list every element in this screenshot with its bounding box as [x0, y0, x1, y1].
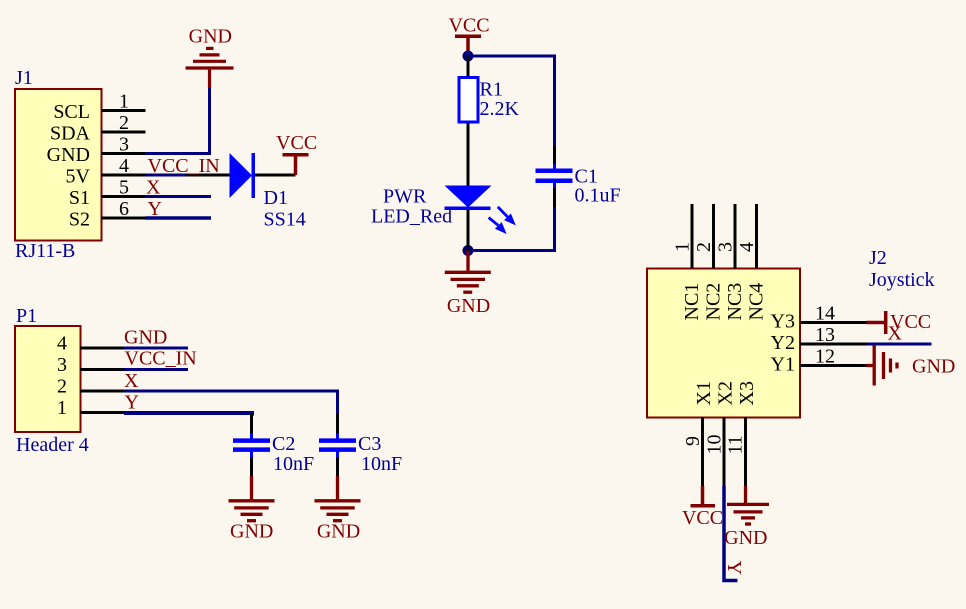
svg-text:12: 12 — [815, 346, 835, 368]
svg-text:11: 11 — [725, 435, 747, 454]
svg-text:3: 3 — [57, 354, 67, 376]
svg-text:14: 14 — [815, 303, 835, 325]
svg-text:J2: J2 — [869, 247, 887, 269]
svg-text:13: 13 — [815, 324, 835, 346]
svg-text:4: 4 — [57, 333, 67, 355]
svg-text:C2: C2 — [272, 433, 295, 455]
svg-text:NC4: NC4 — [746, 283, 768, 321]
svg-text:X: X — [888, 323, 903, 345]
svg-text:GND: GND — [317, 521, 360, 543]
svg-text:1: 1 — [57, 397, 67, 419]
svg-text:GND: GND — [124, 327, 167, 349]
svg-text:J1: J1 — [15, 67, 33, 89]
svg-text:6: 6 — [119, 198, 129, 220]
svg-text:2.2K: 2.2K — [480, 98, 520, 120]
svg-text:1: 1 — [119, 91, 129, 113]
svg-text:LED_Red: LED_Red — [371, 206, 452, 228]
svg-text:Y: Y — [723, 561, 745, 575]
svg-text:2: 2 — [693, 242, 715, 252]
svg-text:PWR: PWR — [383, 186, 427, 208]
svg-text:1: 1 — [672, 242, 694, 252]
svg-text:9: 9 — [682, 436, 704, 446]
svg-text:3: 3 — [119, 134, 129, 156]
svg-text:10nF: 10nF — [361, 453, 402, 475]
svg-text:RJ11-B: RJ11-B — [15, 240, 75, 262]
svg-text:Y3: Y3 — [771, 311, 795, 333]
svg-text:GND: GND — [724, 527, 767, 549]
svg-text:S1: S1 — [69, 187, 90, 209]
svg-text:X1: X1 — [693, 381, 715, 405]
svg-text:2: 2 — [57, 376, 67, 398]
svg-text:X: X — [146, 177, 161, 199]
svg-text:NC1: NC1 — [681, 283, 703, 321]
svg-text:VCC: VCC — [682, 507, 723, 529]
svg-text:X: X — [124, 370, 139, 392]
svg-text:Joystick: Joystick — [869, 269, 935, 291]
svg-text:2: 2 — [119, 112, 129, 134]
svg-text:Y1: Y1 — [771, 354, 795, 376]
svg-text:VCC_IN: VCC_IN — [148, 155, 220, 177]
svg-text:S2: S2 — [69, 209, 90, 231]
svg-text:Header 4: Header 4 — [16, 434, 89, 456]
svg-text:X3: X3 — [736, 381, 758, 405]
svg-text:D1: D1 — [264, 187, 288, 209]
svg-text:GND: GND — [189, 26, 232, 48]
svg-text:P1: P1 — [16, 305, 37, 327]
svg-text:NC3: NC3 — [724, 283, 746, 321]
svg-text:0.1uF: 0.1uF — [575, 185, 621, 207]
svg-text:Y: Y — [125, 392, 139, 414]
svg-text:VCC: VCC — [448, 15, 489, 37]
svg-text:5: 5 — [119, 177, 129, 199]
svg-text:3: 3 — [715, 242, 737, 252]
svg-text:GND: GND — [447, 295, 490, 317]
svg-text:NC2: NC2 — [703, 283, 725, 321]
svg-text:GND: GND — [912, 356, 955, 378]
svg-text:SCL: SCL — [53, 101, 90, 123]
svg-text:C3: C3 — [358, 433, 381, 455]
svg-text:10nF: 10nF — [273, 453, 314, 475]
svg-text:Y2: Y2 — [771, 332, 795, 354]
svg-text:GND: GND — [230, 521, 273, 543]
svg-text:VCC_IN: VCC_IN — [125, 348, 197, 370]
svg-text:4: 4 — [119, 155, 129, 177]
svg-text:GND: GND — [47, 144, 90, 166]
svg-text:Y: Y — [148, 198, 162, 220]
svg-text:10: 10 — [704, 435, 726, 455]
svg-text:4: 4 — [736, 242, 758, 252]
svg-text:SS14: SS14 — [264, 209, 306, 231]
svg-text:VCC: VCC — [276, 132, 317, 154]
svg-text:5V: 5V — [66, 166, 91, 188]
svg-text:SDA: SDA — [50, 123, 91, 145]
svg-text:X2: X2 — [715, 381, 737, 405]
